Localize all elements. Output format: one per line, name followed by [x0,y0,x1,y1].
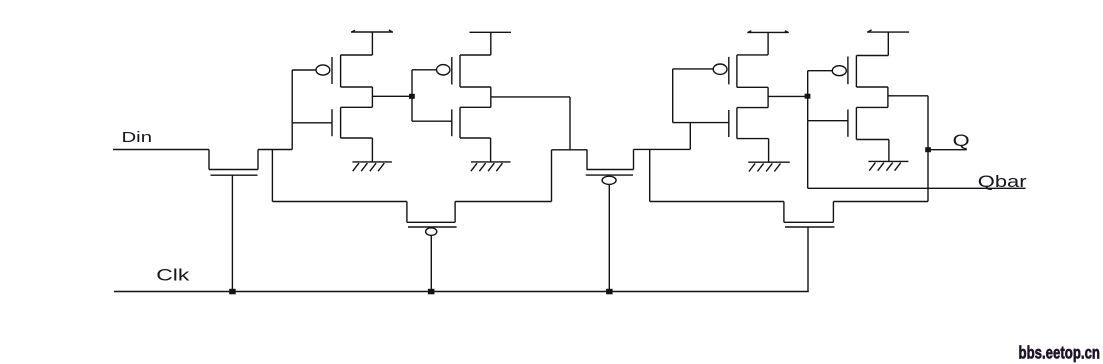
ground symbol 1 [352,138,392,171]
junction node B1 [409,94,415,99]
power VDD symbol 1 [351,30,393,55]
wire Clk line [114,291,809,293]
junction Clk / M7 gate [606,289,613,295]
wire node A2 [634,148,691,150]
wire stage1 output row [552,149,588,151]
wire stage1 feedback drop [551,150,553,202]
pmos transistor M4 (inverter U2 pull-up) [412,55,491,87]
nmos transistor M9 (inverter U3 pull-down) [729,108,769,139]
wire stage2 feedback row left [650,201,784,203]
pmos pass transistor M7 (input pass gate, stage 2) [586,149,634,291]
wire Din input line [113,149,209,151]
nmos transistor M5 (inverter U2 pull-down) [412,107,491,138]
nmos pass transistor M12 (feedback pass gate, stage 2) [784,202,835,292]
wire inverter U1 input vertical [291,70,293,150]
wire stage1 feedback row left [272,201,407,203]
svg-text:Q: Q [953,131,970,150]
wire inverter U3 gate bus [673,69,729,123]
ground symbol 3 [748,139,790,172]
wire inverter U4 input vertical [807,71,809,121]
power VDD symbol 3 [747,31,789,55]
svg-text:Qbar: Qbar [978,173,1027,191]
wire stage1 output drop [569,97,571,150]
junction Clk / M1 gate [229,289,236,295]
pmos transistor M8 (inverter U3 pull-up) [673,55,768,87]
junction node Q [925,147,931,152]
wire stage1 feedback row right [455,201,551,203]
nmos pass transistor M1 (input pass gate, stage 1) [209,150,258,292]
svg-text:Clk: Clk [156,265,190,284]
wire inverter U2 output [491,87,570,107]
svg-text:bbs.eetop.cn: bbs.eetop.cn [1019,342,1101,362]
wire node A1 feedback branch down [271,150,273,202]
pmos transistor M2 (inverter U1 pull-up) [292,55,372,87]
power VDD symbol 2 [470,32,512,55]
wire Qbar vertical tap [807,121,809,189]
power VDD symbol 4 [867,30,909,56]
ground symbol 2 [471,138,511,171]
pmos transistor M10 (inverter U4 pull-up) [808,56,889,88]
wire node A2 feedback branch down [649,149,651,201]
junction node B2 [805,94,811,99]
wire Q output line [928,149,967,151]
wire inverter U3 output [768,87,805,107]
wire inverter U3 input vertical lower [689,123,691,150]
ground symbol 4 [868,140,908,171]
wire inverter U4 output [888,87,928,107]
wire stage2 feedback row right [833,201,928,203]
nmos transistor M3 (inverter U1 pull-down) [292,107,372,138]
wire Qbar output line [808,187,1026,189]
wire stage2 output drop [927,96,929,202]
wire node A1 [258,149,292,151]
svg-text:Din: Din [122,129,153,146]
nmos transistor M11 (inverter U4 pull-down) [808,107,889,139]
junction Clk / M6 gate [428,289,435,295]
wire inverter U1 output [372,87,409,107]
pmos pass transistor M6 (feedback pass gate, stage 1) [407,202,457,292]
wire inverter U2 input vertical [411,70,413,121]
